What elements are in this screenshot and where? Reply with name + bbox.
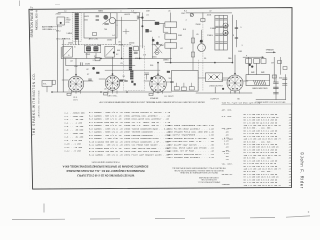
tube V3 grid pin dot xyxy=(151,77,154,80)
capacitor C21 box xyxy=(272,75,276,78)
capacitor C5 tick xyxy=(139,17,142,19)
resistor R17 xyxy=(120,80,123,82)
voltage table group labels xyxy=(222,109,234,186)
rf transformer T1 secondary xyxy=(93,46,98,51)
wire field leads xyxy=(198,77,205,79)
oscillator section box xyxy=(84,13,117,38)
grid cap G1 xyxy=(190,13,193,16)
power unit box xyxy=(172,71,199,92)
wire vertical left pair b xyxy=(62,40,64,92)
resistor R8 xyxy=(67,93,71,95)
capacitor C12 symbol xyxy=(235,28,238,29)
capacitor C24 symbol xyxy=(171,82,174,83)
wire B+ bus xyxy=(165,62,232,64)
wire bus chassis upper xyxy=(61,57,171,59)
wire osc vertical xyxy=(151,37,153,58)
capacitor C17 bars xyxy=(145,72,149,74)
wire top bus xyxy=(58,12,140,14)
tube V4 small triode xyxy=(198,44,206,52)
ground lead wire xyxy=(49,28,56,30)
capacitor C27 box xyxy=(283,67,287,70)
wire filter rail xyxy=(275,75,277,100)
voltage table price column xyxy=(288,114,291,187)
wire right of gang xyxy=(139,13,141,59)
rf transformer T1 box xyxy=(85,45,101,53)
resistor R1 xyxy=(155,22,159,25)
wire vertical left pair a xyxy=(57,40,59,92)
resistor R11 xyxy=(174,87,179,90)
wire right rail A xyxy=(231,15,233,63)
capacitor ladder C9 xyxy=(216,25,219,27)
parts list column B xyxy=(89,111,123,156)
capacitor C2 symbol xyxy=(96,20,99,21)
tube V2 DET-OSC 57 xyxy=(105,76,120,91)
paper grain xyxy=(29,8,292,190)
candohm hatch xyxy=(254,80,256,84)
wire chassis bus xyxy=(52,91,171,93)
junction blob xyxy=(92,67,95,70)
resistor R5 xyxy=(165,43,177,48)
registration mark bottom tick xyxy=(43,204,45,213)
junction node B xyxy=(141,25,143,27)
page corner mark xyxy=(308,211,309,212)
capacitor C23 symbol xyxy=(125,81,128,82)
if transformer shield box dashed xyxy=(124,46,145,90)
coil terminal dot xyxy=(60,22,62,24)
tube V3 I.F. 58 xyxy=(150,76,167,93)
volume control R7 xyxy=(42,81,52,87)
wire ladder rail 3 xyxy=(222,15,224,50)
resistor R9 xyxy=(104,93,108,95)
variable capacitor VC1 xyxy=(63,46,73,57)
coil T2 IF primary xyxy=(129,47,132,70)
capacitor C18 bars xyxy=(273,82,278,84)
coil L1 antenna coil xyxy=(75,13,79,40)
extra small parts xyxy=(51,58,248,94)
wire stub detector xyxy=(125,29,127,34)
registration mark top2 xyxy=(55,3,60,5)
tube V5 rectifier 80 xyxy=(227,75,243,91)
resistor R13 xyxy=(189,87,194,90)
tuning gang link dashed xyxy=(62,44,132,46)
candohm resistor R16 xyxy=(246,75,270,86)
junction dots row xyxy=(100,58,102,60)
resistor R4 xyxy=(165,34,177,39)
wire right rail xyxy=(285,75,287,100)
wire stubs tube2 xyxy=(99,78,106,80)
wire osc drop xyxy=(115,22,117,44)
wire stubs tube1 xyxy=(62,79,69,81)
wire osc grid xyxy=(109,13,111,18)
wire box internals xyxy=(176,83,178,87)
wire bus left corner xyxy=(60,47,62,58)
resistor R10 xyxy=(149,93,153,95)
wire bus second xyxy=(66,65,135,67)
switch S1 xyxy=(52,80,55,84)
resistor R6 rings xyxy=(223,23,228,28)
wire top bus right xyxy=(186,12,232,14)
wire ladder rail 1 xyxy=(214,15,216,50)
wire ladder rail 2 xyxy=(218,15,220,50)
trimmer capacitor CT1 xyxy=(103,15,108,20)
wire ladder rail 4 xyxy=(226,15,228,50)
junction dots power xyxy=(249,64,251,66)
capacitor C20 bars xyxy=(273,92,278,94)
parts list column D xyxy=(165,124,214,159)
capacitor C7 xyxy=(201,19,205,22)
capacitor C13 symbol xyxy=(235,37,238,38)
trimmer arrow xyxy=(103,19,110,24)
svg-text:©John F. Rider: ©John F. Rider xyxy=(300,152,305,189)
wire tube drops xyxy=(75,91,77,93)
wire power bottom xyxy=(256,99,286,101)
wire vertical coupling xyxy=(141,13,143,48)
resistor R12 xyxy=(181,87,186,90)
rf transformer T1 primary xyxy=(86,46,91,51)
capacitor C15 symbol xyxy=(134,52,137,53)
shield partition dashed 2 xyxy=(197,60,199,91)
capacitor C29 bars xyxy=(283,84,288,86)
resistor R20 xyxy=(261,59,266,64)
resistor R2 xyxy=(145,29,148,32)
resistor R15 xyxy=(254,59,260,64)
capacitor C25 chain xyxy=(192,30,194,70)
wire right rail B xyxy=(235,20,237,47)
wire speaker arrow xyxy=(266,51,276,53)
parts list column A xyxy=(65,111,86,152)
capacitor C16 series xyxy=(80,63,82,66)
capacitor C28 bars xyxy=(283,78,288,80)
capacitor C4 symbol xyxy=(105,23,109,24)
wire chassis bus right xyxy=(196,92,252,94)
wire bus third xyxy=(105,69,160,71)
wire bus drops xyxy=(86,53,88,58)
junction dot output xyxy=(222,88,224,90)
wire power verticals xyxy=(248,57,250,74)
capacitor ladder C8 xyxy=(216,18,219,20)
oscillator padder CT2 xyxy=(109,18,115,24)
parts list column C xyxy=(124,111,171,156)
wire coupling to R1 xyxy=(142,20,155,22)
output tube socket marks xyxy=(209,75,220,80)
capacitor C14 box xyxy=(134,47,139,51)
capacitor C6 blobs xyxy=(152,39,155,42)
wire ladder bottom xyxy=(215,49,227,51)
resistor R3 xyxy=(165,22,177,27)
capacitor ladder C10 xyxy=(216,33,219,35)
antenna lead wire dashed xyxy=(51,26,62,28)
wire to speaker xyxy=(243,56,264,58)
junction dot VC2 xyxy=(113,51,115,53)
shield partition dashed xyxy=(202,12,204,91)
wire coil bottom leads xyxy=(75,40,77,45)
wire ladder top xyxy=(215,14,227,16)
output tube shield box xyxy=(206,73,223,82)
wire mid rail xyxy=(273,57,275,82)
coil T2 IF secondary xyxy=(130,71,133,80)
if trimmer blobs xyxy=(131,81,133,83)
capacitor C22 symbol xyxy=(89,79,92,80)
bracket detail xyxy=(162,24,164,32)
padder trimmer circle xyxy=(155,51,159,55)
variable capacitor VC2 xyxy=(105,46,115,57)
wire R1 right xyxy=(159,22,164,24)
wire det drop xyxy=(202,13,204,19)
wire volume leads xyxy=(46,86,48,92)
component box small xyxy=(95,58,100,61)
parts list column E prices xyxy=(224,127,229,161)
junction node A xyxy=(141,17,143,19)
page edge shadow line xyxy=(12,218,65,220)
wire vertical antenna xyxy=(57,25,59,40)
wire stubs rectifier xyxy=(221,79,227,81)
label cluster top band xyxy=(56,9,283,91)
wire stubs tube3 xyxy=(144,80,150,82)
wire power extra rail xyxy=(280,57,282,74)
capacitor C30 box xyxy=(93,33,97,36)
wire ladder links xyxy=(170,27,172,34)
resistor R14 xyxy=(246,59,252,64)
capacitor C1 symbol xyxy=(96,16,99,17)
resistor R19 xyxy=(167,71,170,73)
wire crossing diagonals xyxy=(154,44,162,53)
registration mark top xyxy=(19,1,21,7)
oscillator coil box L2 xyxy=(57,17,65,25)
resistor R18 xyxy=(96,72,99,74)
sheet border frame xyxy=(29,8,292,190)
tube top junction dots xyxy=(75,73,236,76)
capacitor C19 bars xyxy=(273,87,278,89)
capacitor C26 box xyxy=(278,61,282,64)
antenna coil shield box dashed xyxy=(73,12,82,41)
voltage table rows xyxy=(244,113,282,187)
wire osc to coupling xyxy=(116,20,137,22)
schematic sheet page xyxy=(29,8,292,190)
capacitor ladder C11 xyxy=(216,41,219,43)
tube V1 R.F. 58 xyxy=(68,76,84,92)
